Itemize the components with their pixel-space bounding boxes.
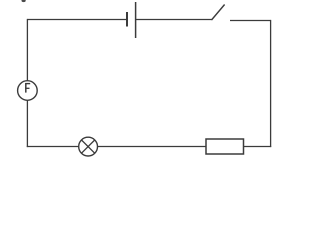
wire bottom-right corner to resistor [244, 146, 272, 148]
lamp (circle with cross) [79, 137, 98, 156]
wire right vertical [270, 20, 272, 147]
wire top-left horizontal (corner to battery) [27, 19, 126, 21]
wire resistor to lamp [98, 146, 206, 148]
wire lamp to bottom-left corner [27, 146, 79, 148]
switch (open) lever blade [212, 5, 225, 21]
wire battery to switch [136, 19, 212, 21]
wire left vertical lower (corner to meter) [26, 100, 28, 147]
battery cell short plate (negative terminal) [126, 12, 128, 27]
resistor R [206, 139, 244, 154]
meter F (circle with letter F) [18, 81, 38, 101]
battery cell long plate (positive terminal) [135, 2, 137, 38]
stray mark (cropped character above top edge) [22, 0, 26, 2]
wire switch to top-right corner [230, 20, 271, 22]
wire left vertical upper (meter to top corner) [26, 19, 28, 81]
